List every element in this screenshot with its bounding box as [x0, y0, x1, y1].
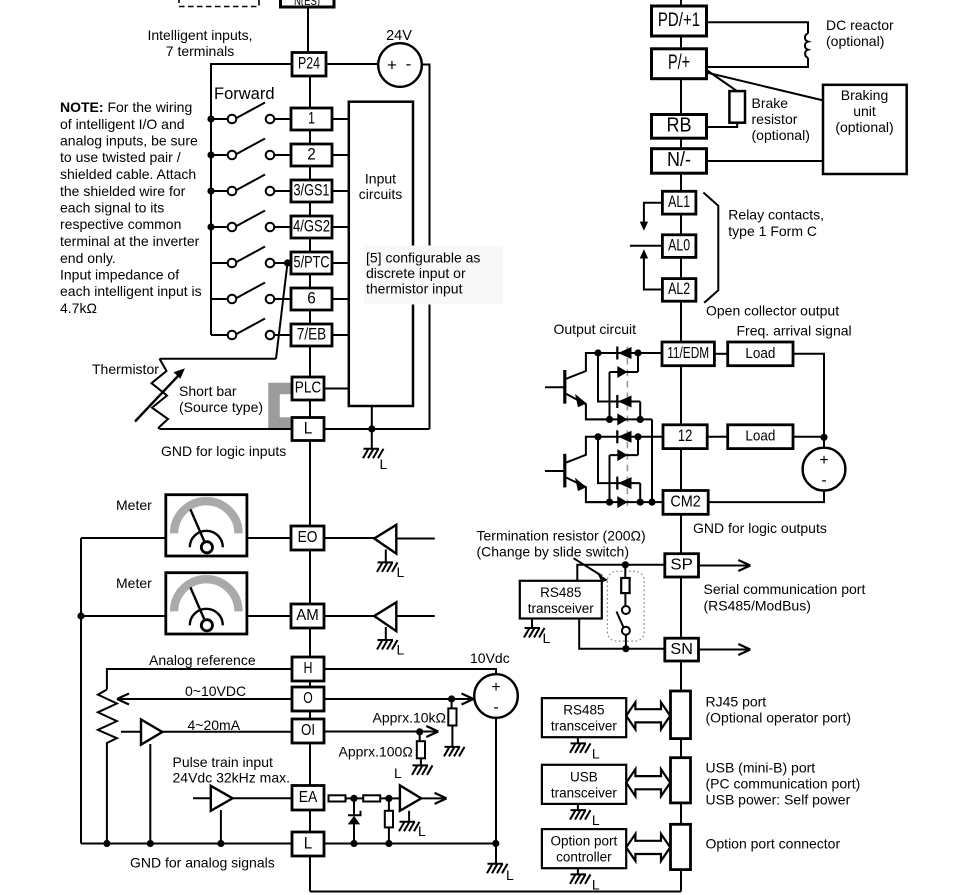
amplifier AM output [374, 602, 396, 640]
svg-text:discrete input or: discrete input or [366, 265, 466, 281]
wire left terminal bus segments [309, 76, 311, 892]
terminal AL1 [662, 191, 696, 214]
svg-text:0~10VDC: 0~10VDC [185, 683, 246, 699]
svg-text:USB (mini-B) port: USB (mini-B) port [706, 760, 816, 776]
svg-text:Relay contacts,: Relay contacts, [728, 207, 824, 223]
resistor R EA series 2 [363, 795, 380, 801]
junction bus-switch y=227 [207, 223, 214, 230]
svg-text:Serial communication port: Serial communication port [704, 581, 866, 597]
load resistor Load1 [728, 342, 793, 366]
wire L row left [160, 428, 293, 430]
wire gnd stem input circuits [371, 429, 373, 449]
wire left bus from N(ES) down to P24 [307, 7, 309, 52]
svg-text:USB: USB [570, 769, 598, 784]
svg-text:4.7kΩ: 4.7kΩ [60, 300, 97, 316]
svg-text:AL0: AL0 [668, 236, 690, 254]
svg-text:Input: Input [365, 171, 396, 187]
RS485 transceiver box 1 [520, 581, 602, 619]
relay contact arrow AL1 (down) [640, 203, 663, 231]
wire amp2 right [396, 615, 435, 617]
svg-text:thermistor input: thermistor input [366, 281, 463, 297]
resistor termination 200 [621, 565, 629, 606]
ground logic input [363, 449, 388, 472]
wire L analog row left [81, 843, 292, 845]
svg-text:type 1 Form C: type 1 Form C [728, 223, 817, 239]
svg-text:H: H [304, 660, 313, 677]
wire thermistor diagonal to 5/PTC [276, 263, 288, 359]
svg-text:Option port: Option port [551, 834, 618, 849]
junction EA zener [350, 795, 357, 802]
svg-text:each intelligent input is: each intelligent input is [60, 283, 202, 299]
ground 100 resistor [412, 765, 433, 775]
ground 10Vdc source [487, 864, 514, 883]
terminal PLC [292, 377, 324, 400]
wire Load1 to supply [793, 354, 824, 448]
svg-text:L: L [304, 833, 313, 852]
terminal L (logic gnd) [292, 418, 324, 441]
junction bus-switch y=119 [207, 115, 214, 122]
wire right bus top [680, 0, 682, 6]
svg-text:RB: RB [666, 115, 691, 137]
svg-text:USB power: Self power: USB power: Self power [706, 792, 851, 808]
amplifier EA (triangle right) [400, 785, 421, 810]
svg-text:AL2: AL2 [668, 280, 690, 298]
wire 11/EDM to Load1 [714, 353, 727, 355]
white patch behind [5] note [364, 246, 503, 305]
wire EA r2-amp [380, 797, 400, 799]
svg-text:RS485: RS485 [540, 585, 581, 600]
terminal H [292, 657, 324, 681]
USB transceiver [542, 765, 626, 804]
relay contact arrow AL2 (up) [640, 249, 663, 289]
svg-text:L: L [543, 630, 551, 646]
inductor DC reactor [707, 22, 809, 67]
double arrow USB transceiver [626, 769, 670, 796]
svg-text:L: L [304, 418, 313, 437]
wire P/+ to brake resistor [707, 70, 738, 91]
wire amp4 down to L [220, 810, 222, 844]
svg-text:+: + [491, 679, 500, 696]
wire H to potentiometer [107, 669, 292, 690]
ground 10k resistor [444, 747, 465, 757]
wire CM2 row extension [652, 501, 663, 503]
terminal P/+ [652, 49, 707, 79]
wire SP to transceiver [577, 565, 665, 581]
wire meter2 left [81, 615, 166, 617]
double arrow Option port controller [626, 834, 670, 861]
transistor Q2 output 12 [545, 430, 662, 508]
terminal AL0 [662, 235, 696, 258]
junction transistor Q2 output 12 row1 right [634, 433, 641, 440]
svg-text:24V: 24V [386, 28, 412, 44]
svg-text:SN: SN [670, 641, 693, 658]
svg-text:GND for analog signals: GND for analog signals [130, 855, 275, 871]
zener diode D1 [348, 798, 361, 842]
bracket relay contacts [703, 193, 718, 303]
svg-text:Apprx.10kΩ: Apprx.10kΩ [373, 710, 447, 726]
svg-text:GND for logic outputs: GND for logic outputs [693, 520, 827, 536]
wire L analog row right [324, 843, 496, 845]
meter M2 [166, 573, 247, 634]
terminal 3/GS1 [291, 180, 332, 202]
svg-text:Meter: Meter [116, 497, 152, 513]
junction shunt-L [385, 840, 392, 847]
svg-text:PD/+1: PD/+1 [658, 9, 700, 31]
junction O-10k resistor [448, 695, 455, 702]
svg-text:Freq. arrival signal: Freq. arrival signal [737, 323, 852, 339]
RS485 transceiver 2 [542, 698, 626, 737]
wire Load2 to supply [793, 436, 824, 438]
junction amp3-L [147, 840, 154, 847]
resistor R EA shunt [385, 798, 393, 842]
wire 3/GS1 to input circuits box [332, 190, 349, 192]
svg-text:each signal to its: each signal to its [60, 200, 164, 216]
arrow SP serial [699, 560, 751, 571]
svg-text:24Vdc 32kHz max.: 24Vdc 32kHz max. [173, 770, 291, 786]
svg-text:+: + [819, 452, 828, 469]
wire P/+ to braking unit [707, 73, 824, 101]
svg-text:Output circuit: Output circuit [554, 321, 637, 337]
svg-text:transceiver: transceiver [551, 719, 618, 734]
svg-text:L: L [380, 456, 388, 472]
short bar (gray strap PLC-L) [274, 389, 292, 424]
arrow termination label pointer [574, 558, 609, 582]
svg-text:Input impedance of: Input impedance of [60, 267, 179, 283]
junction transistor Q2 output 12 row4 left [606, 499, 613, 506]
svg-text:N/-: N/- [667, 149, 691, 171]
terminal N(ES) (cut off at top) [281, 0, 335, 7]
junction transistor Q1 output 11/EDM row4 left [606, 416, 613, 423]
wire 10Vdc source bottom [495, 718, 497, 844]
wire meter1 right to EO [247, 537, 291, 539]
svg-text:7 terminals: 7 terminals [166, 43, 234, 59]
svg-text:Open collector output: Open collector output [706, 303, 839, 319]
switch S7 (7/EB) [211, 319, 291, 340]
svg-text:L: L [418, 823, 426, 839]
svg-text:L: L [394, 765, 402, 781]
connector port RS485 transceiver 2 [671, 691, 691, 739]
junction transistor Q2 output 12 row1 left [594, 433, 601, 440]
svg-text:Forward: Forward [214, 85, 275, 103]
svg-text:RJ45 port: RJ45 port [706, 694, 767, 710]
svg-text:12: 12 [678, 427, 693, 445]
wire Q1 emitter bus to CM2 [651, 419, 653, 502]
wire analog left bus [80, 538, 82, 844]
wire 12 to Load2 [707, 436, 728, 438]
svg-text:circuits: circuits [359, 186, 403, 202]
wire meter2 right to AM [247, 615, 291, 617]
wire 4/GS2 to input circuits box [332, 226, 349, 228]
terminal AM [291, 604, 324, 628]
svg-text:terminal at the inverter: terminal at the inverter [60, 233, 200, 249]
svg-text:(RS485/ModBus): (RS485/ModBus) [704, 598, 811, 614]
svg-text:11/EDM: 11/EDM [667, 345, 709, 362]
terminal 5/PTC [291, 252, 332, 274]
wire amp4 to EA [233, 797, 292, 799]
amplifier pulse input (triangle right) [211, 786, 233, 811]
wire input circuits bottom stub [371, 406, 373, 429]
svg-text:4~20mA: 4~20mA [188, 717, 241, 733]
junction transistor Q2 output 12 row4 right [637, 499, 644, 506]
junction bus-meter2 [77, 612, 84, 619]
wire switch bus vertical [210, 64, 212, 335]
terminal SN [665, 638, 699, 661]
svg-text:Thermistor: Thermistor [92, 361, 159, 377]
connector port USB transceiver [671, 758, 691, 803]
svg-text:PLC: PLC [295, 380, 322, 397]
svg-text:(Source type): (Source type) [179, 399, 263, 415]
svg-text:controller: controller [556, 850, 612, 865]
svg-text:analog inputs, be sure: analog inputs, be sure [60, 133, 198, 149]
wire thermistor horizontal [160, 358, 277, 360]
svg-text:(PC communication port): (PC communication port) [706, 776, 861, 792]
svg-text:(optional): (optional) [835, 119, 893, 135]
svg-text:SP: SP [670, 557, 693, 574]
wire OI row right [324, 731, 436, 733]
svg-text:L: L [397, 564, 405, 580]
svg-text:2: 2 [307, 145, 316, 163]
terminal 2 [291, 144, 332, 166]
svg-text:Intelligent inputs,: Intelligent inputs, [147, 27, 252, 43]
svg-text:shielded cable. Attach: shielded cable. Attach [60, 166, 196, 182]
svg-text:P/+: P/+ [668, 51, 690, 74]
svg-text:Termination resistor (200Ω): Termination resistor (200Ω) [477, 528, 646, 544]
svg-text:Brake: Brake [752, 95, 789, 111]
svg-text:-: - [821, 472, 826, 489]
svg-text:L: L [506, 867, 514, 883]
wire AL0 common [630, 245, 663, 247]
wire amp3 down to L [149, 744, 151, 844]
svg-text:4/GS2: 4/GS2 [293, 217, 330, 235]
svg-text:end only.: end only. [60, 250, 116, 266]
resistor R EA series 1 [329, 795, 346, 801]
svg-text:unit: unit [853, 103, 876, 119]
resistor R 10k [448, 699, 456, 747]
wire EA amp gnd stem [408, 811, 410, 822]
arrow SN serial [699, 644, 751, 655]
wire P24 left to switch bus [210, 63, 292, 65]
junction OI-100 resistor [416, 728, 423, 735]
junction zener-L [350, 840, 357, 847]
junction transistor Q1 output 11/EDM row4 right [637, 416, 644, 423]
wire 1 to input circuits box [332, 118, 349, 120]
wire brake resistor to RB [707, 123, 738, 127]
terminal EA [292, 786, 324, 811]
wire 2 to input circuits box [332, 154, 349, 156]
svg-text:EO: EO [298, 529, 318, 546]
meter M1 [166, 495, 247, 556]
svg-text:Analog reference: Analog reference [149, 652, 256, 668]
svg-text:DC reactor: DC reactor [826, 17, 894, 33]
junction pot-L [103, 840, 110, 847]
terminal P24 [292, 53, 326, 77]
terminal CM2 [663, 491, 708, 515]
terminal N/- [652, 149, 707, 174]
wire RS485 transceiver 2 gnd stem [577, 737, 579, 743]
junction EA shunt resistor [385, 795, 392, 802]
junction L-gnd [368, 425, 375, 432]
svg-text:(optional): (optional) [826, 33, 884, 49]
power source output supply circle [803, 448, 846, 491]
svg-text:Braking: Braking [841, 87, 888, 103]
wire L row right to 24V return [324, 428, 430, 430]
wire 24V right around to L node [422, 65, 430, 430]
svg-text:L: L [592, 812, 600, 828]
ground Option port controller [570, 874, 600, 892]
junction loads supply [820, 434, 827, 441]
junction Q1 bus at CM2 row [648, 499, 655, 506]
potentiometer VR (zigzag) [98, 690, 117, 844]
svg-text:L: L [592, 746, 600, 762]
junction bus-switch y=191 [207, 187, 214, 194]
wire EO to amp1 [324, 537, 374, 539]
node 5/PTC thermistor tap [284, 259, 291, 266]
wire PLC to input circuits box [324, 388, 349, 390]
amplifier EO output [374, 525, 396, 563]
braking unit box [823, 85, 907, 174]
svg-text:of intelligent I/O and: of intelligent I/O and [60, 116, 185, 132]
power source 10Vdc circle [474, 674, 518, 718]
wire supply to CM2 [708, 491, 824, 503]
wire thermistor bottom to L [158, 428, 160, 429]
svg-text:+: + [387, 56, 397, 75]
ground USB transceiver [570, 810, 600, 828]
svg-text:Short bar: Short bar [179, 383, 237, 399]
svg-text:O: O [303, 690, 313, 707]
junction amp4-L [217, 840, 224, 847]
svg-text:NOTE: For the wiring: NOTE: For the wiring [60, 99, 192, 115]
wire right terminal bus segments [680, 36, 682, 892]
terminal SP [665, 554, 699, 577]
svg-text:L: L [592, 877, 600, 893]
wire amp4 left stub [193, 797, 211, 799]
junction transistor Q1 output 11/EDM row1 right [634, 349, 641, 356]
svg-text:respective common: respective common [60, 216, 181, 232]
amplifier 4-20mA input (triangle right) [141, 720, 162, 745]
svg-text:AL1: AL1 [668, 193, 690, 211]
svg-text:[5] configurable as: [5] configurable as [366, 250, 480, 266]
ground RS485 transceiver 2 [570, 743, 600, 761]
wire 5/PTC to input circuits box [332, 262, 349, 264]
wire 7/EB to input circuits box [332, 334, 349, 336]
wire P24 right to 24V source [326, 63, 378, 65]
terminal 1 [291, 108, 332, 130]
arrowhead OI [426, 726, 438, 737]
wire transceiver1 gnd stem [531, 619, 533, 629]
arrow into potentiometer wiper [117, 694, 292, 705]
switch S3 (3/GS1) [211, 175, 291, 196]
resistor R 100 [417, 732, 425, 766]
svg-text:AM: AM [296, 607, 319, 624]
svg-text:CM2: CM2 [670, 494, 701, 511]
svg-text:Load: Load [745, 428, 775, 445]
svg-text:6: 6 [307, 289, 316, 307]
wire EA r1-r2 [346, 797, 364, 799]
wire amp1 right [396, 538, 435, 540]
ground RS485 transceiver 1 [524, 628, 551, 646]
ground EA amp [399, 822, 426, 839]
wire amp3 left stub [121, 731, 141, 733]
svg-text:(Optional operator port): (Optional operator port) [706, 710, 852, 726]
ground amp2 [377, 640, 405, 658]
load resistor Load2 [728, 425, 793, 449]
arrowhead O to source [462, 694, 474, 705]
svg-text:transceiver: transceiver [528, 601, 595, 616]
svg-text:N(ES): N(ES) [294, 0, 320, 8]
junction source-L [492, 840, 499, 847]
svg-text:transceiver: transceiver [551, 785, 618, 800]
terminal 11/EDM [662, 342, 714, 366]
wire USB transceiver gnd stem [577, 804, 579, 810]
svg-text:3/GS1: 3/GS1 [294, 181, 330, 199]
svg-text:Load: Load [745, 345, 775, 362]
wire amp3 to OI [162, 731, 292, 733]
svg-text:(Change by slide switch): (Change by slide switch) [477, 544, 630, 560]
svg-text:L: L [397, 642, 405, 658]
junction bus-switch y=155 [207, 151, 214, 158]
wire source gnd stem [495, 844, 497, 864]
svg-text:Apprx.100Ω: Apprx.100Ω [339, 744, 413, 760]
label [5] configurable note [366, 250, 480, 297]
slide switch dotted box [607, 571, 644, 641]
svg-text:Meter: Meter [116, 575, 152, 591]
thermistor RT (variable resistor with arrow) [135, 359, 185, 429]
power source 24V circle [378, 43, 422, 87]
terminal OI [292, 719, 324, 743]
dashed box (cut off at top) [179, 0, 259, 7]
svg-text:GND for logic inputs: GND for logic inputs [161, 443, 286, 459]
switch S6 (6) [211, 283, 291, 304]
svg-text:to use twisted pair /: to use twisted pair / [60, 149, 181, 165]
Option port controller [542, 829, 626, 868]
switch S4 (4/GS2) [211, 211, 291, 232]
wire meter1 left [81, 537, 166, 539]
switch S5 (5/PTC) [211, 247, 291, 268]
ground amp1 [377, 562, 405, 580]
slide switch SW1 [617, 606, 630, 649]
input circuits box [349, 102, 413, 406]
svg-text:10Vdc: 10Vdc [470, 650, 510, 666]
terminal RB [652, 115, 707, 139]
svg-text:1: 1 [308, 109, 315, 127]
svg-text:EA: EA [299, 789, 318, 806]
terminal PD/+1 [652, 6, 707, 36]
junction SN termination [622, 645, 629, 652]
wire H to 10Vdc source [324, 669, 496, 674]
terminal 4/GS2 [291, 216, 332, 238]
wire SN to transceiver [579, 619, 665, 649]
svg-text:5/PTC: 5/PTC [294, 253, 330, 271]
note text paragraph [60, 99, 202, 316]
svg-text:Pulse train input: Pulse train input [173, 754, 274, 770]
terminal L (analog gnd) [292, 832, 324, 856]
connector port Option port controller [671, 824, 691, 869]
terminal EO [291, 526, 324, 550]
double arrow RS485 transceiver 2 [626, 702, 670, 729]
wire 6 to input circuits box [332, 298, 349, 300]
terminal AL2 [662, 279, 696, 302]
switch S1 (1) [211, 103, 291, 124]
junction transistor Q1 output 11/EDM row1 left [594, 349, 601, 356]
arrow EA output [421, 793, 446, 804]
svg-text:OI: OI [301, 722, 315, 739]
terminal O [292, 687, 324, 711]
terminal 12 [663, 425, 707, 449]
wire bottom frame [310, 891, 681, 893]
wire AM to amp2 [324, 615, 374, 617]
svg-text:the shielded wire for: the shielded wire for [60, 183, 186, 199]
svg-text:7/EB: 7/EB [297, 325, 327, 343]
